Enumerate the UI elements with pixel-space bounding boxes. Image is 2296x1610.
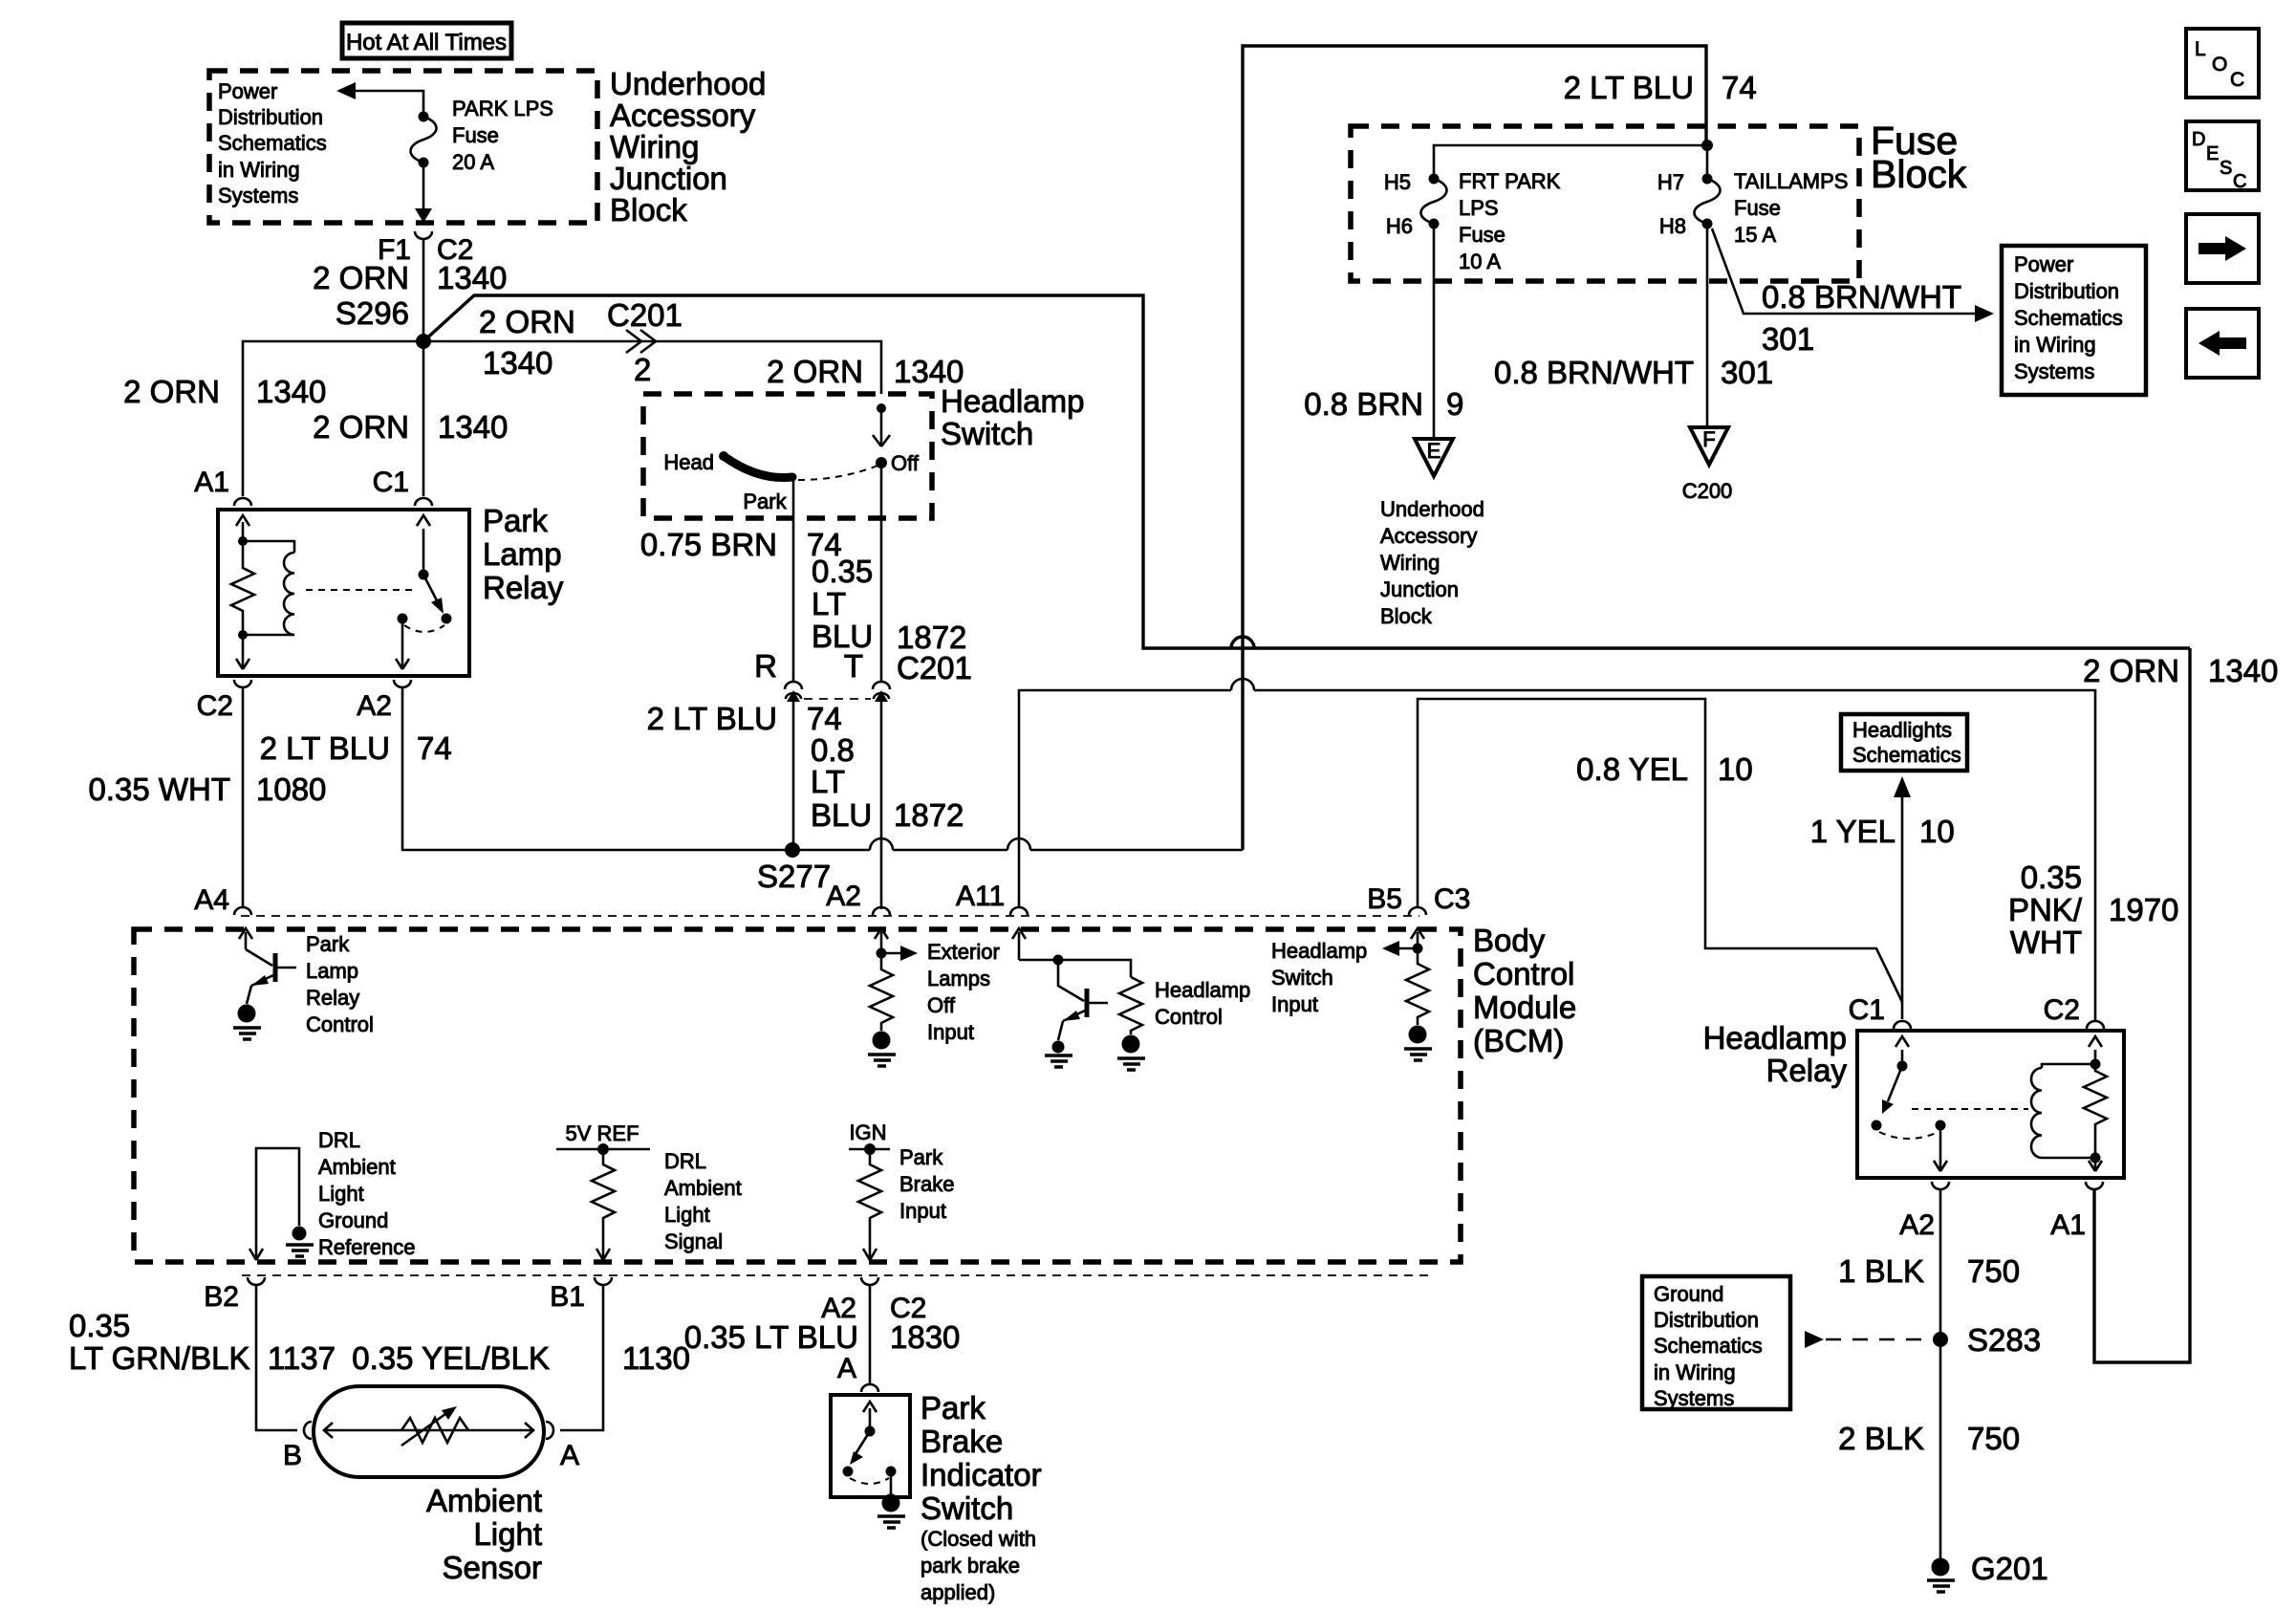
svg-text:Fuse: Fuse <box>1459 223 1505 247</box>
svg-text:C201: C201 <box>607 297 682 333</box>
Park Brake Indicator Switch box <box>831 1395 910 1497</box>
connector C201 chevrons on wire <box>626 330 656 353</box>
svg-text:Park: Park <box>899 1145 943 1169</box>
svg-text:0.35 YEL/BLK: 0.35 YEL/BLK <box>352 1340 550 1376</box>
svg-text:Headlamp: Headlamp <box>1271 939 1367 963</box>
coil bottom dot <box>2090 1153 2101 1164</box>
wire: 1 YEL up arrow to headlights schematics <box>1901 795 1904 1019</box>
blade with arrowhead <box>854 1431 870 1457</box>
ground dot (park brake switch) <box>882 1494 900 1512</box>
wire: feed to Off contact with arrow <box>880 408 883 446</box>
svg-text:2 LT BLU: 2 LT BLU <box>260 730 390 766</box>
wire: feed down to TAILLAMPS fuse <box>1706 145 1709 179</box>
variable resistor zigzag <box>401 1418 468 1443</box>
svg-text:Indicator: Indicator <box>921 1457 1042 1492</box>
svg-text:5V REF: 5V REF <box>565 1121 639 1145</box>
switch common arrow (C1 inside) <box>1901 1050 1904 1063</box>
hop over 1872 wire <box>870 838 893 850</box>
dashed contact travel arc <box>404 625 444 632</box>
svg-text:Block: Block <box>1380 604 1433 628</box>
wire: right contact down and out (A2) <box>1939 1125 1942 1170</box>
BCM connector dashed line (top pins) <box>241 915 1419 917</box>
ground (B5) <box>1404 1049 1432 1060</box>
dashed travel arc <box>850 1478 889 1484</box>
svg-text:in Wiring: in Wiring <box>2014 333 2096 357</box>
svg-text:LT GRN/BLK: LT GRN/BLK <box>69 1340 250 1376</box>
connector chevron A (sensor) <box>546 1422 553 1439</box>
svg-text:A11: A11 <box>956 881 1005 912</box>
svg-text:Module: Module <box>1473 990 1576 1025</box>
connector chevron A2 (below relay) <box>1932 1182 1949 1189</box>
dashed link to coil <box>1912 1108 2028 1110</box>
svg-text:Ambient: Ambient <box>426 1483 542 1518</box>
coil bottom dot <box>238 630 248 640</box>
Headlamp Switch dashed box <box>643 394 932 518</box>
switch pivot dot <box>419 570 429 580</box>
wire: feed across to FRT PARK fuse <box>1434 145 1707 179</box>
inline connector C201 dashed line with hops <box>804 698 871 700</box>
ground (A4) <box>233 1028 261 1039</box>
svg-text:Headlamp: Headlamp <box>1703 1020 1847 1055</box>
branch arrow right <box>881 952 904 955</box>
svg-text:Light: Light <box>318 1182 364 1206</box>
svg-text:1340: 1340 <box>483 345 552 381</box>
svg-text:Head: Head <box>663 450 714 474</box>
svg-text:Signal: Signal <box>664 1229 723 1253</box>
svg-text:0.35 LT BLU: 0.35 LT BLU <box>684 1319 858 1355</box>
relay coil top rail <box>243 541 294 553</box>
svg-text:Block: Block <box>1871 152 1967 196</box>
transistor Q (headlamp control) <box>1058 960 1084 1001</box>
svg-text:in Wiring: in Wiring <box>218 158 300 182</box>
variable resistor arrow <box>401 1414 445 1446</box>
terminal arrow up (A11) <box>1018 932 1021 960</box>
svg-text:Schematics: Schematics <box>2014 306 2123 330</box>
svg-text:Junction: Junction <box>610 161 727 196</box>
svg-text:750: 750 <box>1967 1253 2020 1289</box>
svg-text:A4: A4 <box>194 884 229 916</box>
svg-text:Headlamp: Headlamp <box>1155 978 1250 1002</box>
ground (G201) <box>1927 1580 1955 1592</box>
switch feed dot inside <box>877 403 886 413</box>
svg-text:Brake: Brake <box>899 1172 954 1196</box>
svg-text:LT: LT <box>811 764 845 799</box>
pivot dot <box>865 1426 876 1437</box>
connector R male arrow <box>787 690 800 702</box>
svg-text:2 ORN: 2 ORN <box>479 304 575 339</box>
svg-text:T: T <box>844 648 863 684</box>
svg-text:301: 301 <box>1762 321 1814 357</box>
connector chevron B2 <box>248 1277 265 1285</box>
transistor Q (park lamp relay control) <box>246 949 272 966</box>
svg-text:Light: Light <box>473 1516 542 1552</box>
connector chevron B5/C3 <box>1409 907 1426 915</box>
node S277 splice dot <box>785 842 800 858</box>
svg-text:0.35: 0.35 <box>2021 859 2082 895</box>
resistor (headlamp control) <box>1119 977 1142 1034</box>
svg-text:Schematics: Schematics <box>218 131 327 155</box>
svg-text:Off: Off <box>927 993 956 1017</box>
svg-text:IGN: IGN <box>849 1120 886 1144</box>
svg-text:Park: Park <box>921 1390 986 1425</box>
DRL ground reference loop <box>256 1148 299 1259</box>
resistor (park brake input) <box>858 1149 881 1259</box>
resistor (DRL ambient light signal) <box>592 1149 615 1259</box>
svg-text:Underhood: Underhood <box>610 66 766 101</box>
connector chevron A2 (below relay) <box>394 680 411 687</box>
TAILLAMPS fuse element <box>1695 179 1721 224</box>
wire: fuse output down inside junction block <box>422 163 425 210</box>
terminal arrow up (A4) <box>245 932 248 949</box>
svg-text:2 LT BLU: 2 LT BLU <box>1564 70 1694 105</box>
svg-text:Exterior: Exterior <box>927 940 1000 964</box>
terminal arrow up (B5) <box>1417 932 1419 948</box>
hop over trunk (A11 wire) <box>1231 679 1254 690</box>
svg-text:E: E <box>2206 143 2219 164</box>
Underhood Accessory Wiring Junction Block dashed box <box>209 71 597 223</box>
wire to transistor and resistor <box>1019 960 1131 977</box>
svg-text:LPS: LPS <box>1459 196 1499 220</box>
svg-text:A1: A1 <box>194 467 229 498</box>
svg-text:B5: B5 <box>1367 883 1402 915</box>
svg-text:2 ORN: 2 ORN <box>123 374 220 409</box>
svg-text:Fuse: Fuse <box>452 123 499 147</box>
wire: Off contact down to connector T <box>880 463 883 682</box>
svg-text:Park: Park <box>483 503 548 538</box>
solid arrow down at junction block exit <box>415 208 432 223</box>
connector chevron A4 <box>234 907 251 915</box>
ground (park brake switch) <box>877 1516 905 1528</box>
svg-text:0.35 WHT: 0.35 WHT <box>88 772 230 807</box>
svg-text:1130: 1130 <box>622 1340 690 1376</box>
svg-text:Relay: Relay <box>483 570 564 605</box>
svg-text:74: 74 <box>807 701 842 736</box>
node S296 junction dot <box>416 334 431 349</box>
svg-text:TAILLAMPS: TAILLAMPS <box>1734 169 1848 193</box>
svg-text:S296: S296 <box>336 295 409 331</box>
svg-text:Underhood: Underhood <box>1380 497 1484 521</box>
svg-text:L: L <box>2195 38 2206 60</box>
svg-text:0.35: 0.35 <box>812 554 873 589</box>
contact dot left (A2) <box>398 614 408 624</box>
svg-text:Off: Off <box>891 451 920 475</box>
ground dot (A2) <box>873 1032 891 1050</box>
wire: relay A2 down to G201 <box>1939 1188 1942 1560</box>
terminal arrow up (A2) <box>880 932 883 953</box>
svg-text:1872: 1872 <box>894 797 964 833</box>
junction dot <box>1413 944 1423 954</box>
ground dot G201 <box>1932 1558 1950 1577</box>
svg-text:Distribution: Distribution <box>218 105 323 129</box>
svg-text:C3: C3 <box>1434 883 1470 915</box>
svg-text:0.35: 0.35 <box>69 1308 130 1343</box>
svg-text:B: B <box>283 1440 302 1471</box>
svg-text:2 ORN: 2 ORN <box>2083 653 2179 688</box>
svg-text:WHT: WHT <box>2010 925 2082 960</box>
connector chevron C1 (relay top) <box>1894 1021 1911 1029</box>
FRT PARK fuse bottom dot (H6) <box>1429 219 1440 229</box>
node S283 splice dot <box>1933 1332 1948 1347</box>
connector chevron B1 <box>595 1277 612 1285</box>
svg-text:Relay: Relay <box>1766 1053 1848 1088</box>
svg-text:15 A: 15 A <box>1734 223 1776 247</box>
svg-text:Power: Power <box>2014 252 2073 276</box>
svg-text:D: D <box>2192 129 2205 150</box>
svg-text:Systems: Systems <box>2014 359 2094 383</box>
svg-text:B2: B2 <box>204 1281 239 1313</box>
svg-text:Reference: Reference <box>318 1235 416 1259</box>
svg-text:Distribution: Distribution <box>2014 279 2119 303</box>
fuse block feed dot <box>1701 140 1713 151</box>
forward arrow box <box>2186 214 2259 283</box>
coil top dot <box>238 536 248 546</box>
coil top rail <box>2042 1064 2095 1068</box>
svg-text:Lamps: Lamps <box>927 967 990 990</box>
wire: H8 down to F flag <box>1706 224 1709 426</box>
svg-text:Body: Body <box>1473 923 1546 958</box>
svg-text:DRL: DRL <box>664 1149 706 1173</box>
F flag triangle <box>1690 427 1728 465</box>
svg-text:R: R <box>754 648 777 684</box>
svg-text:Input: Input <box>927 1020 974 1044</box>
connector chevron A (park brake switch) <box>861 1384 878 1392</box>
svg-text:74: 74 <box>417 730 452 766</box>
E flag triangle <box>1415 439 1453 476</box>
wire: S296 left branch to park lamp relay A1 <box>243 341 423 496</box>
svg-text:Wiring: Wiring <box>1380 551 1440 575</box>
svg-text:Fuse: Fuse <box>1734 196 1781 220</box>
ground (headlamp control) <box>1117 1058 1145 1070</box>
relay coil terminal arrow (A1 inside) <box>242 522 245 541</box>
svg-text:0.75 BRN: 0.75 BRN <box>640 527 777 562</box>
connector chevron B (sensor) <box>304 1422 312 1439</box>
svg-text:10: 10 <box>1718 751 1753 787</box>
svg-text:1340: 1340 <box>256 374 326 409</box>
dashed link coil to contact arm <box>306 589 417 591</box>
branch arrow left <box>1396 947 1418 950</box>
dashed link to S283 <box>1826 1338 1937 1341</box>
svg-text:1970: 1970 <box>2109 892 2178 927</box>
wire: A2/C2 down to switch <box>869 1284 872 1384</box>
connector T male arrow <box>875 690 888 702</box>
svg-text:2 BLK: 2 BLK <box>1838 1421 1924 1456</box>
svg-text:Ambient: Ambient <box>318 1155 396 1179</box>
back arrow box <box>2186 309 2259 378</box>
svg-text:2 ORN: 2 ORN <box>313 409 409 445</box>
junction dot <box>1053 955 1064 966</box>
svg-text:(Closed with: (Closed with <box>921 1527 1036 1551</box>
Off contact dot <box>876 457 887 468</box>
ground (DRL reference) <box>286 1245 314 1256</box>
resistor (headlamp relay) <box>2084 1064 2107 1130</box>
svg-text:PARK LPS: PARK LPS <box>452 97 553 120</box>
svg-text:A2: A2 <box>357 690 392 722</box>
svg-text:1340: 1340 <box>438 409 508 445</box>
resistor (relay, left) <box>231 541 254 635</box>
switch blade (Head-Park) thick stroke <box>724 456 792 478</box>
wire: S277 trunk up right side to fuse block <box>1243 46 1706 850</box>
fuse PARK LPS element (S-curve) <box>411 117 437 163</box>
svg-text:0.8 YEL: 0.8 YEL <box>1576 751 1688 787</box>
svg-text:Headlamp: Headlamp <box>941 383 1084 419</box>
dashed travel arc Park to Off <box>798 466 877 480</box>
Hot At All Times header box <box>342 23 511 58</box>
svg-text:74: 74 <box>1722 70 1757 105</box>
sensor internal double arrow <box>323 1429 534 1432</box>
wire: BCM B5 up and right to headlamp relay C1 (0.8 YEL) <box>1418 699 1902 1002</box>
svg-text:2 LT BLU: 2 LT BLU <box>647 701 777 736</box>
svg-text:Switch: Switch <box>921 1490 1013 1526</box>
wire: H6 down to E flag <box>1433 224 1436 438</box>
svg-text:Control: Control <box>306 1012 374 1036</box>
relay coil (4 bumps) <box>284 553 294 635</box>
relay coil (4 bumps) <box>2031 1068 2042 1158</box>
ground (transistor) <box>1045 1055 1072 1067</box>
contact dot right <box>886 1467 897 1477</box>
connector T cap arc <box>873 682 890 689</box>
svg-text:Systems: Systems <box>218 184 298 207</box>
svg-text:0.8 BRN/WHT: 0.8 BRN/WHT <box>1494 355 1694 390</box>
svg-text:301: 301 <box>1721 355 1773 390</box>
svg-text:(BCM): (BCM) <box>1473 1023 1564 1058</box>
contact dot right <box>442 614 452 624</box>
ground dot (DRL reference) <box>292 1227 307 1241</box>
svg-text:Light: Light <box>664 1203 710 1227</box>
wire: relay C2 down to BCM A4 <box>242 686 245 908</box>
Fuse Block dashed box <box>1351 126 1859 281</box>
svg-text:H6: H6 <box>1386 214 1413 238</box>
svg-text:C: C <box>2230 69 2244 91</box>
connector chevron C1 <box>415 498 432 506</box>
svg-text:H8: H8 <box>1659 214 1686 238</box>
svg-text:H7: H7 <box>1657 170 1684 194</box>
fuse PARK LPS bottom dot <box>419 158 429 168</box>
svg-text:BLU: BLU <box>812 619 873 654</box>
Park Lamp Relay box <box>218 510 469 676</box>
resistor (exterior lamps off input) <box>870 953 893 1031</box>
Headlamp Relay box <box>1857 1031 2124 1178</box>
svg-text:O: O <box>2212 54 2227 76</box>
Ambient Light Sensor body (stadium) <box>314 1386 544 1477</box>
coil top dot <box>2090 1059 2101 1070</box>
svg-text:A: A <box>837 1353 856 1384</box>
svg-text:Distribution: Distribution <box>1654 1308 1759 1332</box>
switch blade with arrowhead <box>423 575 440 606</box>
ground dot (headlamp control) <box>1122 1035 1140 1054</box>
svg-text:PNK/: PNK/ <box>2008 892 2083 927</box>
svg-text:Switch: Switch <box>941 416 1033 451</box>
svg-text:1830: 1830 <box>890 1319 960 1355</box>
svg-text:Brake: Brake <box>921 1424 1003 1459</box>
svg-text:Lamp: Lamp <box>306 959 358 983</box>
svg-text:10: 10 <box>1919 814 1955 849</box>
svg-text:DRL: DRL <box>318 1128 360 1152</box>
connector chevron C2 (below relay) <box>234 680 251 687</box>
relay coil exit arrow down (C2 inside) <box>242 635 245 668</box>
wire: feed arrow to Power Distribution Schematics <box>354 91 423 117</box>
svg-text:Accessory: Accessory <box>1380 524 1477 548</box>
svg-text:C2: C2 <box>197 690 233 722</box>
svg-text:C2: C2 <box>2044 994 2080 1026</box>
svg-text:0.8 BRN/WHT: 0.8 BRN/WHT <box>1762 279 1961 315</box>
ground dot (B5) <box>1409 1026 1427 1044</box>
wire: R to S277 <box>792 478 795 850</box>
svg-text:2: 2 <box>634 352 651 387</box>
DESC box <box>2186 121 2259 190</box>
coil exit arrow down (A1 inside) <box>2094 1130 2097 1170</box>
LOC box <box>2186 29 2259 98</box>
transistor ground dot <box>1052 1041 1065 1054</box>
connector chevron A2/C2 (park brake) <box>861 1277 878 1285</box>
svg-text:Input: Input <box>1271 992 1318 1016</box>
connector chevron A2 (BCM) <box>873 907 890 915</box>
svg-text:Control: Control <box>1473 956 1574 991</box>
coil bottom rail <box>2042 1157 2095 1160</box>
svg-text:Lamp: Lamp <box>483 536 562 572</box>
Headlights Schematics box <box>1841 714 1967 771</box>
junction dot <box>877 948 887 959</box>
blade with arrowhead <box>1888 1066 1902 1101</box>
svg-text:park brake: park brake <box>921 1554 1020 1577</box>
fuse PARK LPS top dot <box>419 112 429 122</box>
connector chevron A1 (below relay) <box>2086 1182 2103 1189</box>
wire: S296 right branch to C201 and headlamp switch <box>423 341 881 394</box>
svg-text:Relay: Relay <box>306 986 359 1010</box>
svg-text:1340: 1340 <box>437 260 507 295</box>
wire: right contact to ground <box>890 1471 893 1497</box>
connector R cap arc <box>785 682 802 689</box>
arrowhead left (solid) <box>336 82 356 99</box>
svg-text:1080: 1080 <box>256 772 326 807</box>
svg-text:Sensor: Sensor <box>442 1550 542 1585</box>
svg-text:S277: S277 <box>757 859 831 894</box>
svg-text:C1: C1 <box>1849 994 1885 1026</box>
resistor (headlamp switch input) <box>1406 948 1429 1025</box>
dashed travel arc <box>1879 1132 1939 1139</box>
svg-text:applied): applied) <box>921 1580 995 1604</box>
svg-text:E: E <box>1427 439 1441 463</box>
Power Distribution Schematics box (right) <box>2002 246 2146 395</box>
Ground Distribution Schematics box <box>1642 1276 1790 1409</box>
svg-text:Ambient: Ambient <box>664 1176 742 1200</box>
relay coil bottom rail <box>243 634 294 637</box>
pivot dot <box>1897 1061 1908 1072</box>
switch common arrow up <box>869 1408 872 1428</box>
wire: S296 diagonal up to 2 ORN distribution line <box>423 295 2190 648</box>
svg-text:9: 9 <box>1446 386 1463 422</box>
connector chevron A11 <box>1010 907 1028 915</box>
hop over A11 wire <box>1007 838 1030 850</box>
BCM bottom connector dashed line <box>242 1274 1434 1276</box>
svg-text:Switch: Switch <box>1271 966 1333 990</box>
connector chevron C2 (relay top) <box>2087 1021 2104 1029</box>
svg-text:10 A: 10 A <box>1459 250 1501 273</box>
ground (A2) <box>868 1055 896 1066</box>
FRT PARK fuse top dot (H5) <box>1429 174 1440 185</box>
svg-text:Junction: Junction <box>1380 577 1459 601</box>
svg-text:Ground: Ground <box>318 1208 388 1232</box>
svg-text:1340: 1340 <box>2208 653 2278 688</box>
svg-text:H5: H5 <box>1384 170 1411 194</box>
wire: H8 branch diagonal to power distribution arrow <box>1712 228 1979 314</box>
svg-text:Park: Park <box>306 932 350 956</box>
svg-text:2 ORN: 2 ORN <box>313 260 409 295</box>
arrowhead right (solid) to power distribution <box>1975 305 1994 322</box>
BCM dashed border <box>134 929 1461 1262</box>
svg-text:C201: C201 <box>897 650 972 685</box>
svg-text:Schematics: Schematics <box>1852 743 1961 767</box>
hop over vertical 1300 on 2 ORN line <box>1231 637 1254 648</box>
